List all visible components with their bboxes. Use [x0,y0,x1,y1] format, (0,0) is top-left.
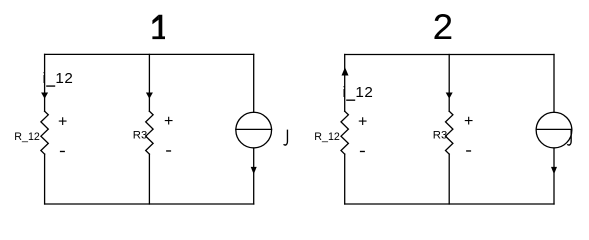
label J circuit 2 (drawn as path) [567,130,571,145]
resistor R3 [146,111,153,154]
wire bottom edge circuit 2 [345,203,554,205]
wire right branch upper circuit 2 [553,55,555,113]
wire middle branch upper circuit 2 [448,55,450,112]
minus sign R3 circuit 1 [166,150,171,151]
wire left branch upper circuit 1 [44,54,46,111]
minus sign R_12 circuit 2 [360,151,365,152]
wire top edge circuit 2 [345,54,554,56]
wire bottom edge circuit 1 [45,203,254,205]
source arrow below J circuit 1 (down) [251,167,257,174]
minus sign R3 circuit 2 [466,150,471,151]
resistor R_12 [41,111,48,154]
node label 1 (digit drawn as path) [152,15,165,39]
svg-text:i: i [43,70,46,87]
resistor R_12 circuit 2 [341,111,348,154]
svg-text:R3: R3 [133,130,147,142]
wire middle branch lower circuit 1 [148,154,150,204]
svg-text:R3: R3 [433,130,447,142]
wire right branch upper circuit 1 [253,54,255,112]
svg-text:+: + [464,113,473,130]
wire right branch lower circuit 2 [553,148,555,204]
current arrow i_12 circuit 1 (down) [41,93,48,99]
wire left branch lower circuit 2 [344,154,346,204]
svg-text:12: 12 [55,70,73,87]
wire right branch lower circuit 1 [253,148,255,204]
wire top edge circuit 1 [45,53,254,55]
minus sign R_12 circuit 1 [60,151,65,152]
wire middle branch lower circuit 2 [448,154,450,204]
svg-text:12: 12 [355,84,373,101]
svg-text:R_12: R_12 [314,131,340,143]
current arrow middle branch circuit 1 (down) [146,93,153,99]
current arrow middle branch circuit 2 (down) [446,93,453,99]
svg-text:+: + [58,113,67,130]
svg-text:+: + [358,113,367,130]
wire middle branch upper circuit 1 [148,54,150,111]
svg-text:R_12: R_12 [14,131,40,143]
resistor R3 circuit 2 [446,111,453,154]
current arrow i_12 circuit 2 (up) [342,67,349,75]
svg-text:2: 2 [432,9,454,51]
wire left branch upper circuit 2 [344,55,346,112]
source arrow below J circuit 2 (down) [551,167,557,174]
current source J circuit 1 [236,112,272,148]
wire left branch lower circuit 1 [44,154,46,204]
svg-text:+: + [164,113,173,130]
current source J circuit 2 [536,112,572,148]
svg-text:i: i [343,84,346,101]
label J circuit 1 (drawn as path) [284,130,288,145]
